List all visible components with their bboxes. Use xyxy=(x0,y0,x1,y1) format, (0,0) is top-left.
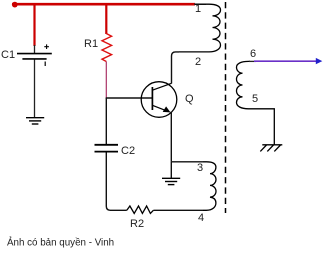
wire (emitter node to winding 3) xyxy=(171,161,203,163)
svg-text:5: 5 xyxy=(252,93,258,105)
svg-text:R2: R2 xyxy=(130,218,144,230)
output arrow (purple) xyxy=(254,58,322,64)
wire (base node down to C2) xyxy=(105,98,107,144)
wire (black continuation of rail to winding 1) xyxy=(194,3,206,5)
wire (emitter node to ground) xyxy=(170,162,172,178)
inductor winding 1-2 (primary upper) xyxy=(179,4,221,52)
svg-text:3: 3 xyxy=(197,162,203,174)
wire (red drop to R1) xyxy=(105,5,107,35)
wire (6 output short black stub) xyxy=(249,60,256,62)
resistor R2 xyxy=(127,206,154,213)
wire (base node to transistor base) xyxy=(106,97,152,99)
ground (under C1) xyxy=(26,118,44,124)
wire (collector up to winding 2) xyxy=(172,52,180,84)
transistor Q xyxy=(141,82,177,118)
svg-text:4: 4 xyxy=(198,212,204,224)
wire (C2 down and corner to R2) xyxy=(106,153,127,211)
capacitor C2 xyxy=(95,145,119,152)
wire (R2 to winding 4) xyxy=(153,209,203,211)
wire (stub to C1 top plate) xyxy=(34,45,36,53)
svg-text:C2: C2 xyxy=(121,145,135,157)
resistor R1 xyxy=(102,34,112,62)
earth ground (secondary) xyxy=(260,145,282,152)
wire (C1 to ground) xyxy=(34,60,36,118)
wire (top supply rail, red) xyxy=(12,3,195,6)
svg-text:2: 2 xyxy=(195,56,201,68)
svg-text:C1: C1 xyxy=(1,49,15,61)
inductor winding 5-6 (secondary) xyxy=(237,61,275,144)
wire (red drop to C1) xyxy=(33,5,35,47)
inductor winding 3-4 (primary lower) xyxy=(203,162,216,211)
svg-text:1: 1 xyxy=(195,3,201,15)
wire (emitter down) xyxy=(170,112,172,162)
node A (supply junction dot) xyxy=(12,2,18,8)
svg-text:Ảnh có bản quyền - Vinh: Ảnh có bản quyền - Vinh xyxy=(7,237,114,249)
svg-text:R1: R1 xyxy=(84,38,98,50)
wire (R1 to base node, dark red) xyxy=(105,62,107,99)
ground (under emitter) xyxy=(162,178,180,184)
svg-text:6: 6 xyxy=(250,48,256,60)
svg-text:Q: Q xyxy=(185,93,194,105)
transformer core (dashed line) xyxy=(225,2,227,213)
capacitor C1 xyxy=(17,44,52,66)
